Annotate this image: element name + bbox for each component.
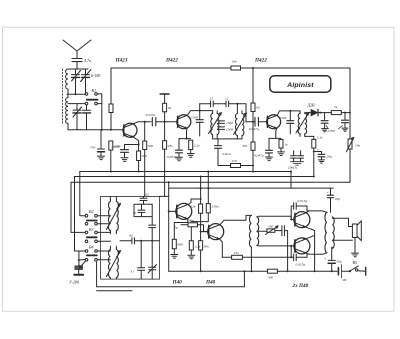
svg-text:680: 680 [178, 243, 184, 247]
node [151, 240, 153, 242]
battery Б1 9В [332, 265, 350, 282]
resistor R6 2,2к [189, 140, 200, 149]
transformer Tr3 secondary [305, 113, 307, 134]
node [200, 187, 202, 189]
wire AGC line 1 [80, 171, 291, 173]
wire [200, 103, 211, 105]
transistor T1 П423 [123, 123, 137, 137]
svg-text:300: 300 [268, 276, 274, 280]
svg-text:160: 160 [268, 224, 274, 228]
svg-text:1500: 1500 [226, 128, 233, 132]
svg-text:2х П40: 2х П40 [292, 283, 309, 289]
wire [110, 246, 116, 279]
wire secondary top [257, 216, 295, 219]
wire volume line [71, 181, 350, 183]
antenna W1 [63, 40, 91, 58]
capacitor C19 4700 [321, 113, 328, 129]
node [252, 171, 254, 173]
wire outer ground [97, 262, 245, 287]
capacitor C10 tank [196, 120, 203, 123]
ferrite rod [62, 69, 64, 124]
wire T7 collector [306, 253, 327, 254]
svg-text:0,015µ: 0,015µ [296, 263, 306, 268]
svg-text:1к: 1к [284, 143, 288, 147]
node [236, 103, 238, 105]
wire [71, 182, 85, 232]
wire T2 collector [188, 111, 213, 116]
wire T7 emitter [306, 235, 315, 239]
switch B3 [85, 227, 110, 243]
wire T4 base [169, 210, 177, 212]
resistor R10 1к [279, 139, 288, 148]
wire T5 collector [220, 215, 251, 224]
node [252, 165, 254, 167]
wire [179, 138, 191, 140]
wire [110, 113, 112, 130]
capacitor C13 1500 [218, 121, 234, 125]
resistor R19 100к [174, 219, 209, 232]
wire speaker top [332, 218, 352, 226]
resistor R14 560 [143, 122, 154, 197]
svg-text:0,047µ: 0,047µ [254, 154, 264, 159]
ground [266, 157, 273, 161]
resistor R8 6к [251, 103, 260, 112]
node [314, 270, 316, 272]
switch B5 [349, 260, 366, 275]
wire [68, 129, 123, 131]
node [168, 210, 170, 212]
svg-text:1500: 1500 [226, 121, 233, 125]
svg-text:30к: 30к [204, 245, 210, 249]
node [331, 270, 333, 272]
potentiometer R12 10к [346, 113, 360, 152]
capacitor C1 4,7н [72, 58, 91, 69]
variable capacitor C3 6-180 [81, 69, 101, 94]
wire [110, 196, 116, 233]
transistor T4 П40 [176, 203, 192, 219]
transformer Tr4 winding b [116, 202, 118, 231]
wire [275, 230, 282, 232]
svg-text:0,047µ: 0,047µ [146, 113, 156, 118]
terminal bar [160, 94, 169, 103]
resistor R2 10к [231, 60, 241, 71]
transformer Tr7 secondary [332, 217, 334, 249]
transformer Tr2 secondary [242, 114, 244, 136]
wire [110, 68, 112, 104]
wire [311, 112, 332, 114]
wire [252, 112, 254, 143]
svg-text:150к: 150к [212, 205, 219, 209]
wire AGC line 2 [75, 176, 314, 178]
node [200, 270, 202, 272]
ground [187, 154, 194, 158]
node [164, 171, 166, 173]
wire secondary bottom [257, 244, 295, 247]
svg-text:6к: 6к [168, 106, 172, 110]
svg-text:15к: 15к [234, 251, 240, 255]
wire AF rail [169, 187, 334, 189]
wire top bus [111, 67, 231, 69]
svg-text:1к: 1к [334, 105, 338, 109]
node [289, 110, 291, 112]
wire stub [97, 290, 132, 292]
wire [138, 161, 140, 172]
node [207, 187, 209, 189]
wire AF box left [168, 182, 170, 271]
wire [75, 177, 86, 252]
svg-text:20µ: 20µ [335, 197, 341, 201]
ground [322, 129, 328, 132]
wire T3 emitter [276, 128, 277, 138]
resistor R4 5к6 [137, 151, 147, 161]
svg-text:5,1к: 5,1к [317, 136, 323, 141]
capacitor C28 [131, 241, 145, 279]
capacitor C21 20мк [313, 148, 332, 160]
node [319, 112, 321, 114]
svg-text:П40: П40 [205, 280, 216, 286]
switch B2 [85, 209, 110, 225]
capacitor C12 12 [225, 97, 229, 107]
svg-text:0,047µ: 0,047µ [249, 127, 259, 132]
wire [242, 256, 291, 258]
svg-text:560: 560 [148, 144, 154, 148]
capacitor C18 1500 [280, 111, 294, 134]
svg-text:Д2В: Д2В [307, 102, 316, 107]
transistor T2 П422 [177, 115, 191, 129]
svg-text:1500: 1500 [191, 116, 198, 120]
inductor L2 [66, 98, 68, 124]
wire [191, 213, 208, 222]
resistor R1 [109, 104, 113, 113]
wire [229, 104, 246, 122]
node [101, 129, 103, 131]
wire [213, 103, 225, 105]
diode D1 Д2В [307, 102, 319, 116]
wire [218, 165, 231, 167]
ground [171, 255, 178, 259]
wire [354, 238, 356, 253]
wire secondary tap [257, 230, 267, 232]
svg-text:12: 12 [210, 97, 214, 101]
switch B1 [85, 88, 102, 105]
node [252, 67, 254, 69]
trimmer arrow Tr4 [107, 204, 121, 230]
wire [252, 150, 254, 171]
capacitor C15 0,01м [215, 139, 232, 166]
wire [160, 195, 169, 197]
capacitor C5 [83, 105, 91, 130]
resistor R21 30к [199, 232, 210, 272]
svg-text:П423: П423 [115, 58, 128, 64]
ground [352, 253, 359, 257]
capacitor C34 50мк [324, 247, 342, 271]
capacitor C9 0,033мк [167, 139, 183, 160]
node [290, 219, 292, 221]
inductor L1 [66, 69, 68, 89]
svg-text:12: 12 [225, 97, 229, 101]
wire [313, 148, 315, 177]
resistor R15 33к [163, 122, 174, 197]
wire [135, 240, 160, 242]
svg-text:У-280: У-280 [69, 280, 79, 285]
svg-text:Alpinist: Alpinist [286, 82, 314, 89]
node [168, 181, 170, 183]
wire top bus right [241, 68, 351, 139]
ground [188, 255, 195, 259]
wire [156, 121, 177, 123]
capacitor C14 1500 [218, 127, 234, 132]
capacitor C17 0,047мк [254, 138, 273, 158]
capacitor C16 0,047мк [246, 117, 267, 132]
capacitor C27 82 [130, 234, 135, 244]
node [349, 112, 351, 114]
node [200, 231, 202, 233]
svg-text:В4: В4 [89, 244, 93, 249]
node [110, 129, 112, 131]
node [243, 270, 245, 272]
transformer Tr6 primary [249, 215, 251, 247]
svg-text:470: 470 [232, 159, 238, 163]
resistor R5 6к [163, 103, 172, 112]
wire [164, 112, 166, 122]
ground [98, 156, 105, 160]
transformer Tr1 secondary [217, 114, 219, 135]
resistor R20 1,2к [189, 227, 200, 255]
wire [222, 256, 231, 258]
trimmer capacitor C2 [72, 69, 81, 94]
node [313, 143, 315, 145]
capacitor C20 4700 [342, 112, 349, 128]
transformer Tr5 winding b [116, 250, 118, 278]
speaker Гр1 [352, 221, 361, 241]
node [290, 245, 292, 247]
node [252, 121, 254, 123]
transistor T5 П40 [208, 224, 224, 240]
capacitor C6 750 [90, 130, 105, 156]
transistor T3 П422 [267, 115, 281, 129]
wire bottom bus [169, 270, 268, 272]
svg-text:31: 31 [131, 270, 135, 274]
node [290, 256, 292, 258]
trimmer capacitor C4 [73, 104, 82, 130]
transistor T6 П40 [294, 212, 310, 228]
wire T4 emitter [174, 219, 188, 239]
resistor R22 15к [232, 251, 243, 259]
wire [269, 137, 281, 139]
svg-text:1500: 1500 [280, 116, 287, 120]
ground [278, 152, 285, 156]
svg-text:+: + [327, 191, 330, 195]
node [290, 171, 292, 173]
svg-text:50µ: 50µ [336, 260, 342, 264]
wire [290, 172, 292, 189]
svg-text:9В: 9В [343, 278, 348, 282]
node [200, 176, 202, 178]
jack У-280 [69, 251, 86, 285]
wire [68, 69, 88, 94]
capacitor C25 [133, 204, 145, 216]
trimmer arrow Tr3 [296, 113, 309, 133]
resistor R9 47к [242, 142, 255, 150]
wire [213, 138, 242, 140]
capacitor C31 0,015мк [291, 199, 307, 220]
transformer Tr3 primary [298, 113, 300, 134]
wire [110, 150, 112, 172]
capacitor C33 20мк [327, 188, 341, 212]
resistor R3 220к [109, 141, 121, 150]
node [207, 171, 209, 173]
resistor R24 300 [267, 269, 277, 279]
svg-text:1,2к: 1,2к [194, 245, 200, 250]
wire [68, 103, 85, 105]
ground [291, 162, 304, 165]
transformer Tr4 winding a [108, 202, 110, 231]
capacitor C26 [149, 225, 156, 241]
node [75, 93, 77, 95]
wire [67, 93, 85, 95]
wire T6 collector [306, 211, 327, 213]
svg-text:П40: П40 [172, 280, 183, 286]
capacitor C8 0,047мк [146, 113, 156, 126]
thermistor R23 160 [266, 224, 279, 234]
svg-text:100к: 100к [187, 219, 194, 223]
svg-text:4,7н: 4,7н [84, 58, 91, 64]
trimmer capacitor C29 [148, 241, 157, 279]
svg-text:10к: 10к [232, 60, 238, 64]
svg-text:47к: 47к [242, 144, 248, 148]
wire T1 emitter [134, 137, 139, 151]
node [164, 121, 166, 123]
wire [250, 247, 252, 271]
svg-text:82: 82 [130, 234, 134, 238]
svg-text:6-180: 6-180 [91, 73, 100, 78]
wire T2 emitter [186, 128, 189, 138]
resistor R18 680 [172, 239, 183, 249]
capacitor C7 0,049 [112, 145, 139, 158]
svg-text:750: 750 [90, 146, 96, 150]
node [200, 198, 202, 200]
wire [190, 150, 192, 154]
svg-text:2,2к: 2,2к [194, 144, 200, 149]
wire [67, 94, 69, 130]
svg-text:6к: 6к [257, 106, 261, 110]
Alpinist nameplate [270, 76, 331, 92]
svg-text:62: 62 [146, 193, 150, 197]
wire [241, 165, 254, 167]
node [138, 171, 140, 173]
wire [151, 204, 153, 225]
capacitor C23 [298, 151, 304, 162]
wire [199, 104, 201, 120]
svg-text:Тр: Тр [174, 226, 178, 230]
node [287, 270, 289, 272]
switch B4 [85, 244, 110, 261]
wire emitter join [314, 231, 316, 272]
wire [101, 94, 103, 130]
node [199, 110, 201, 112]
oscillator box [101, 196, 160, 279]
resistor R11 1к [331, 105, 341, 115]
wire [252, 68, 254, 103]
ground [319, 160, 325, 163]
ground [121, 158, 128, 162]
wire [280, 148, 282, 152]
resistor R7 470 [231, 159, 241, 168]
wire [200, 213, 202, 231]
wire [285, 231, 288, 272]
wire T4 collector [188, 199, 200, 204]
wire [134, 204, 152, 216]
capacitor C30 [282, 226, 285, 236]
svg-text:0,015µ: 0,015µ [298, 199, 308, 204]
trimmer arrow Tr2 [234, 113, 247, 134]
capacitor C24 62 [140, 193, 149, 205]
svg-text:В5: В5 [353, 260, 357, 265]
svg-text:4.700: 4.700 [327, 129, 335, 133]
resistor R17 150к [206, 172, 219, 213]
wire [300, 111, 314, 136]
svg-text:91: 91 [133, 211, 137, 215]
node [250, 270, 252, 272]
capacitor C32 0,015мк [291, 246, 307, 268]
wire [80, 172, 85, 216]
wire [341, 112, 350, 114]
resistor R16 12к [191, 177, 203, 214]
svg-text:+: + [324, 257, 327, 261]
wire T6 emitter [306, 227, 315, 230]
label 4.700 [326, 126, 343, 134]
node [186, 138, 188, 140]
transformer Tr6 secondary [257, 217, 259, 245]
trimmer arrow Tr1 [209, 113, 222, 134]
svg-text:В2: В2 [89, 209, 93, 214]
svg-text:10к: 10к [355, 144, 361, 148]
capacitor C22 [291, 151, 297, 162]
node [313, 176, 315, 178]
svg-text:20µ: 20µ [327, 155, 333, 159]
resistor R13 5,1к [312, 136, 323, 148]
wire [199, 123, 201, 136]
wire [349, 149, 351, 182]
ground [176, 157, 183, 161]
transistor T7 П40 [294, 238, 310, 254]
transformer Tr7 primary [325, 212, 327, 252]
wire [237, 104, 242, 139]
wire speaker bottom [332, 239, 352, 241]
trimmer arrow Tr5 [107, 251, 121, 277]
capacitor C11 12 [210, 97, 214, 107]
wire T1 collector [134, 122, 151, 124]
svg-text:23к: 23к [168, 144, 174, 148]
wire [120, 240, 132, 242]
node [138, 144, 140, 146]
transformer Tr2 primary [236, 114, 238, 136]
wire [213, 111, 218, 139]
node [144, 121, 146, 123]
wire [277, 270, 331, 272]
node [140, 240, 142, 242]
node [110, 171, 112, 173]
wire T5 emitter [220, 239, 223, 257]
wire [173, 249, 175, 255]
ground [342, 128, 348, 131]
wire T5 base [201, 231, 209, 233]
svg-text:20кГц: 20кГц [288, 166, 297, 170]
transformer Tr5 winding a [109, 249, 111, 277]
transformer Tr1 primary [211, 114, 213, 135]
svg-text:В3: В3 [89, 227, 93, 232]
svg-text:П422: П422 [165, 58, 178, 64]
